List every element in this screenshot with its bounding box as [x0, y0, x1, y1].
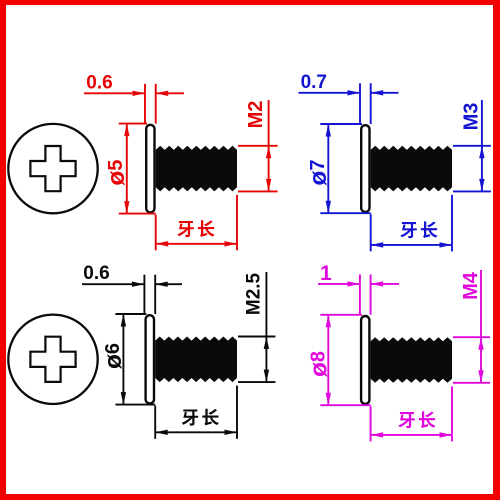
screw 2 (M3, blue): threaded shaft	[371, 146, 452, 192]
svg-text:ø5: ø5	[103, 160, 130, 186]
svg-text:0.7: 0.7	[301, 72, 327, 93]
screw 1 (M2, red): threaded shaft	[156, 146, 237, 192]
screw 1 (M2, red): phillips cross recess	[30, 146, 75, 191]
screw 1 (M2, red): screw head front view circle	[8, 124, 97, 213]
screw 3 (M2.5, black): threaded shaft	[155, 337, 237, 383]
svg-text:ø6: ø6	[99, 343, 126, 369]
screw 1 (M2, red): side view head (capsule)	[146, 125, 154, 213]
dimension 牙长 (thread length) of screw 2 (M3, blue)	[371, 244, 452, 246]
dimension 0.6 (head thickness) of screw 1 (M2, red)	[84, 92, 145, 94]
svg-text:0.6: 0.6	[86, 72, 112, 93]
dimension 牙长 (thread length) of screw 4 (M4, magenta)	[371, 434, 452, 436]
dimension &#248;5 (head diameter) of screw 1 (M2, red)	[119, 123, 147, 125]
dimension &#248;8 (head diameter) of screw 4 (M4, magenta)	[320, 314, 362, 316]
dimension &#248;6 (head diameter) of screw 3 (M2.5, black)	[115, 313, 146, 315]
screw 3 (M2.5, black): phillips cross recess	[30, 337, 75, 382]
dimension M3 (thread diameter) of screw 2 (M3, blue)	[453, 145, 491, 147]
svg-text:0.6: 0.6	[83, 263, 109, 284]
dimension &#248;7 (head diameter) of screw 2 (M3, blue)	[320, 123, 362, 125]
dimension 0.7 (head thickness) of screw 2 (M3, blue)	[299, 92, 361, 94]
svg-text:ø8: ø8	[305, 351, 332, 377]
dimension 牙长 (thread length) of screw 1 (M2, red)	[156, 243, 237, 245]
svg-text:M2.5: M2.5	[243, 272, 264, 315]
screw 3 (M2.5, black): side view head (capsule)	[146, 315, 154, 403]
dimension M2 (thread diameter) of screw 1 (M2, red)	[238, 145, 278, 147]
screw 4 (M4, magenta): threaded shaft	[371, 337, 452, 383]
svg-text:M2: M2	[245, 101, 267, 129]
dimension 0.6 (head thickness) of screw 3 (M2.5, black)	[82, 283, 144, 285]
dimension M2.5 (thread diameter) of screw 3 (M2.5, black)	[238, 336, 275, 338]
dimension 牙长 (thread length) of screw 3 (M2.5, black)	[155, 431, 237, 433]
screw 4 (M4, magenta): side view head (capsule)	[361, 316, 369, 404]
svg-text:M3: M3	[460, 103, 482, 131]
screw 3 (M2.5, black): screw head front view circle	[8, 315, 97, 404]
dimension 1 (head thickness) of screw 4 (M4, magenta)	[318, 283, 360, 285]
svg-text:1: 1	[320, 262, 332, 285]
dimension M4 (thread diameter) of screw 4 (M4, magenta)	[453, 336, 490, 338]
screw 2 (M3, blue): side view head (capsule)	[361, 125, 369, 212]
svg-text:M4: M4	[460, 271, 482, 300]
svg-text:ø7: ø7	[304, 160, 331, 186]
